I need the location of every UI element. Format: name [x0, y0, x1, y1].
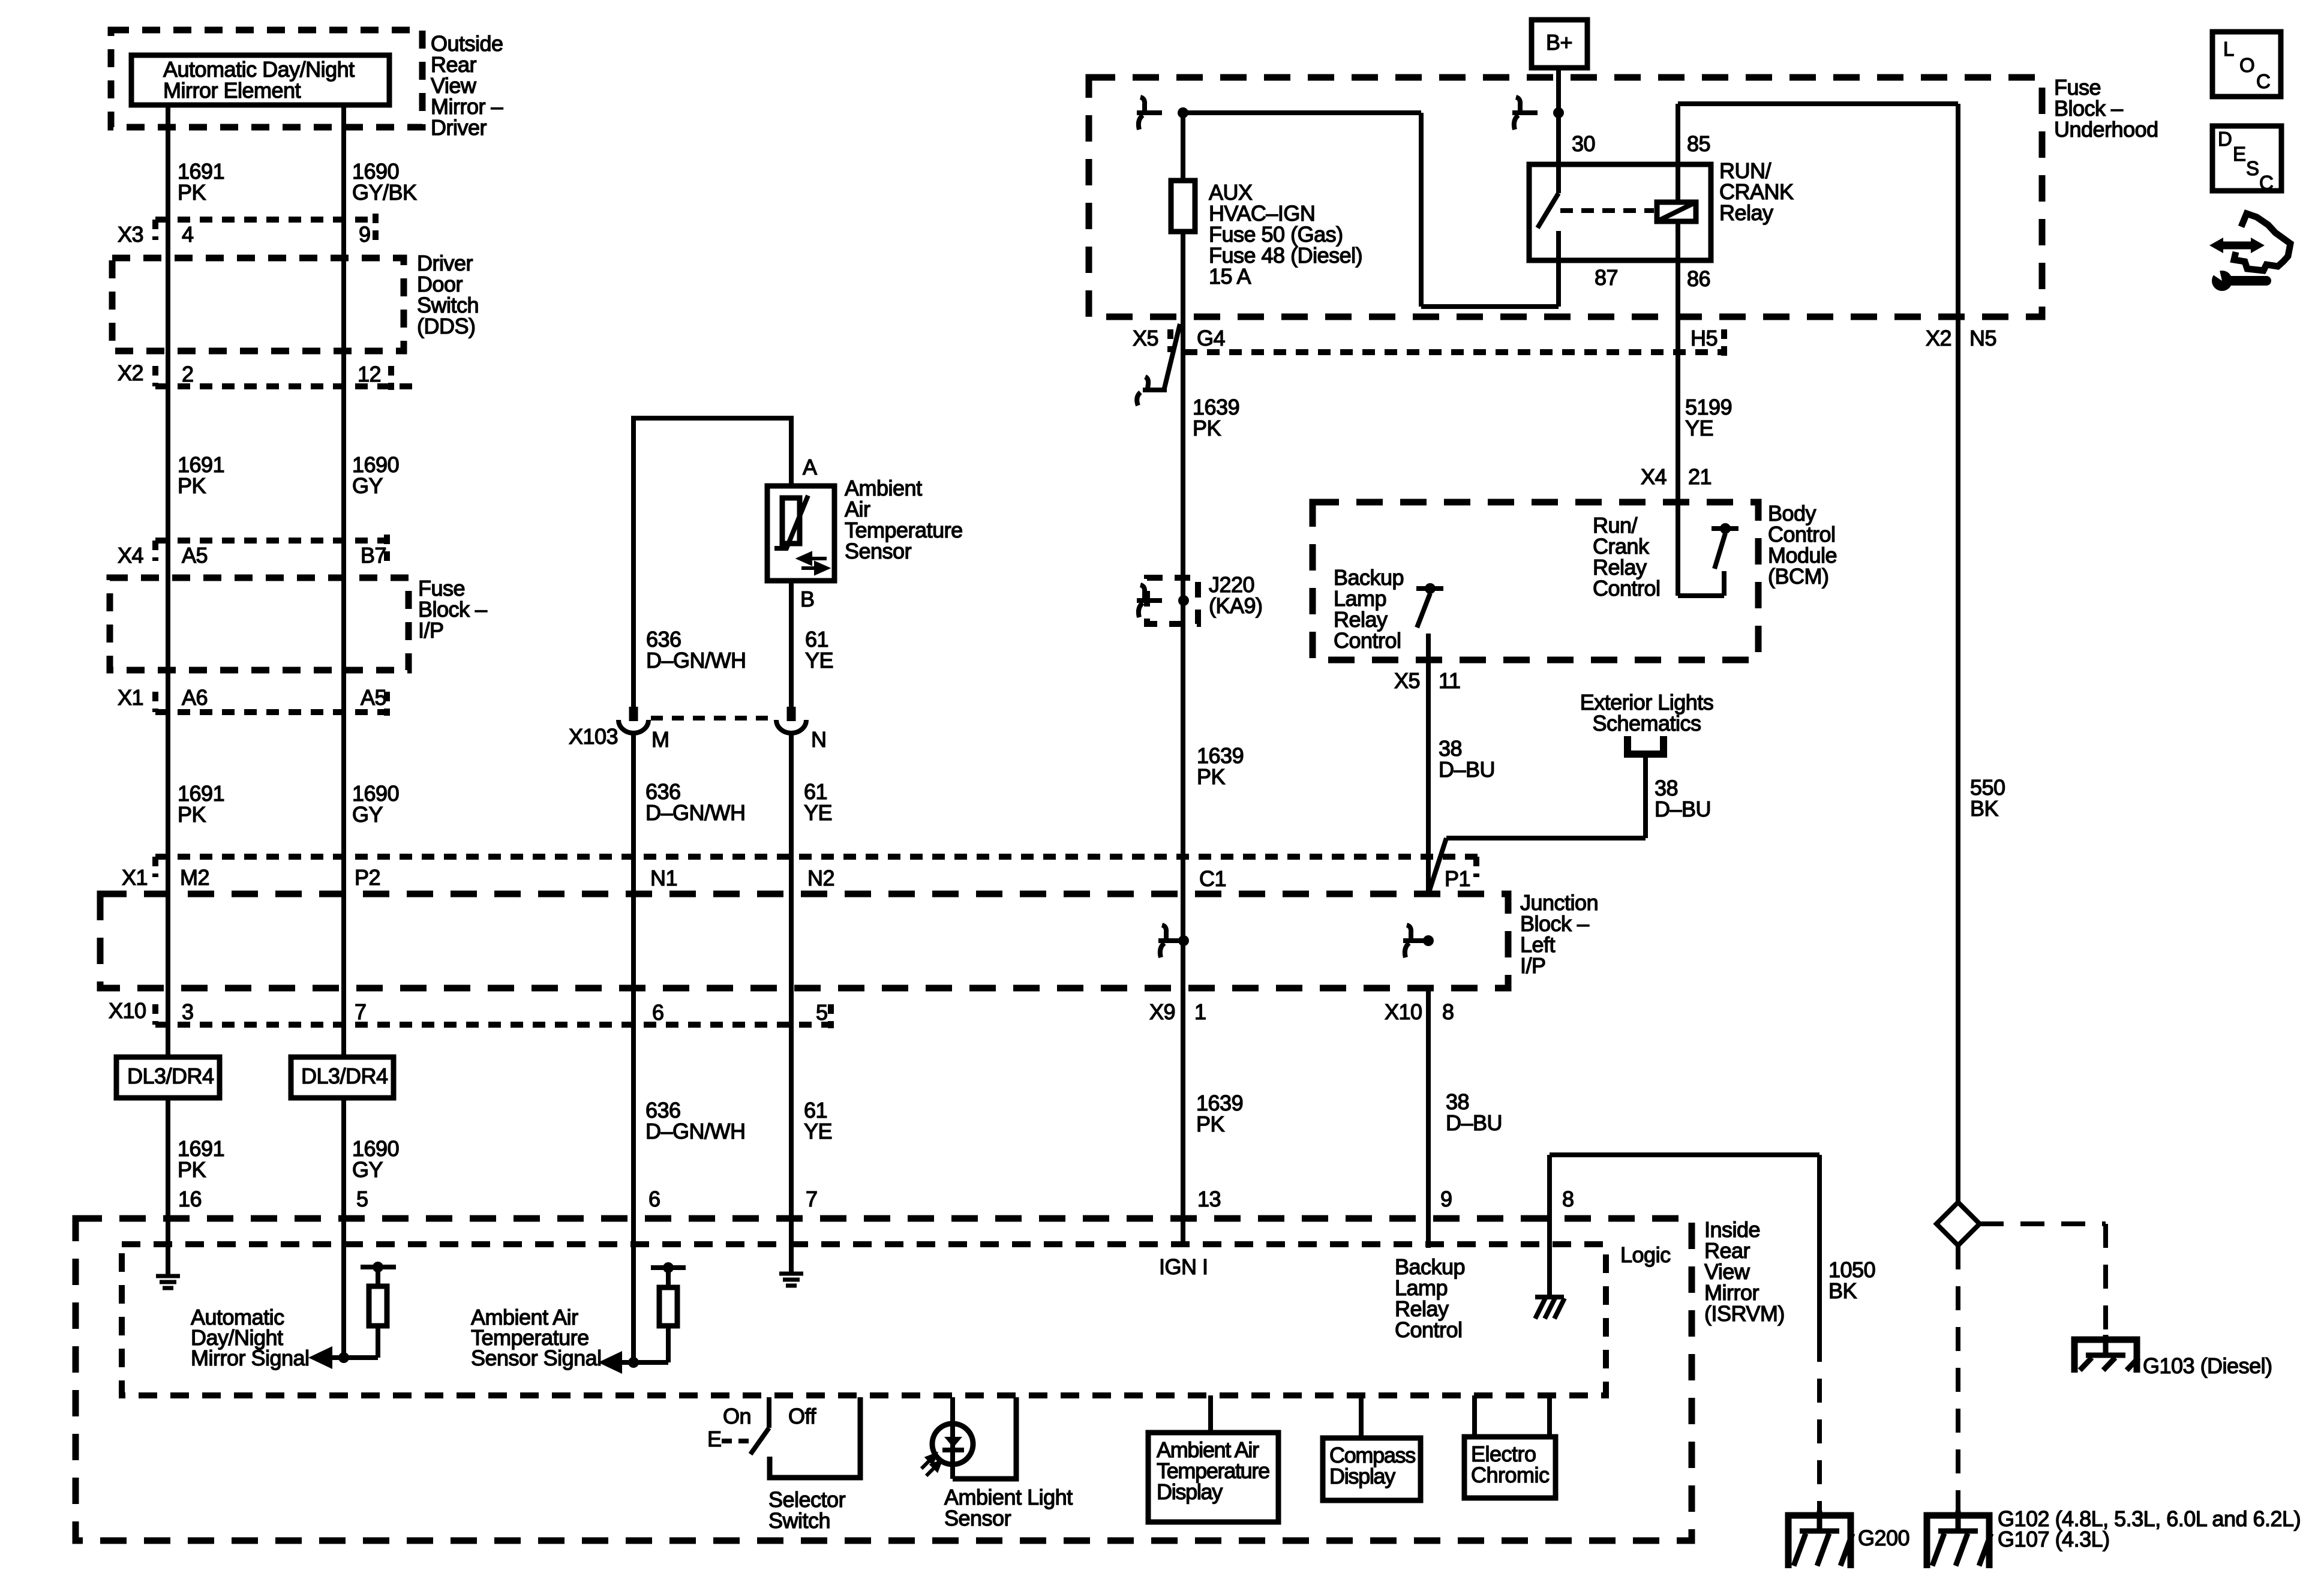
svg-text:G200: G200 [1858, 1526, 1909, 1550]
svg-text:C: C [2256, 70, 2270, 92]
wire 1691 PK left vertical [166, 105, 170, 1274]
svg-text:X1: X1 [122, 865, 148, 890]
compass display box [1359, 1395, 1364, 1438]
svg-text:H5: H5 [1691, 326, 1718, 350]
wire 1972 to fuse [1181, 113, 1185, 181]
wire 1690 GY right vertical [341, 105, 346, 1358]
wire 86 down [1676, 260, 1680, 596]
DL3/DR4 box left [116, 1057, 220, 1098]
svg-text:B+: B+ [1546, 30, 1572, 55]
svg-text:X10: X10 [1385, 999, 1422, 1024]
svg-text:5: 5 [816, 1000, 828, 1025]
svg-text:C: C [2259, 172, 2273, 194]
wire B+ down to bus [1556, 68, 1561, 164]
svg-text:4: 4 [182, 222, 194, 247]
bus junction terminal right [1512, 97, 1538, 130]
svg-text:7: 7 [355, 999, 367, 1024]
svg-text:A6: A6 [182, 685, 208, 710]
junction block terminal on 1639 wire [1158, 925, 1184, 957]
relay switch blade [1556, 164, 1561, 193]
svg-text:87: 87 [1595, 265, 1618, 290]
svg-text:B: B [800, 587, 815, 611]
svg-text:6: 6 [648, 1187, 660, 1211]
chassis ground logic [1535, 1297, 1565, 1319]
wire 8 loop to 1050 BK [1547, 1155, 1552, 1297]
svg-text:9: 9 [359, 222, 371, 247]
ground signal left [156, 1276, 180, 1288]
wire 85 up and over [1676, 164, 1680, 202]
svg-text:C1: C1 [1199, 866, 1226, 891]
svg-text:Schematics: Schematics [1592, 711, 1701, 736]
wire 1050 BK dashed [1817, 1338, 1822, 1512]
svg-text:86: 86 [1687, 266, 1710, 291]
svg-text:A5: A5 [361, 685, 386, 710]
svg-text:G103 (Diesel): G103 (Diesel) [2143, 1353, 2272, 1378]
wire 9 into logic [1426, 986, 1431, 1248]
run/crank driver switch [1712, 526, 1739, 531]
J220 KA9 splice box [1147, 578, 1198, 624]
junction block left I/P dashed box [100, 894, 1508, 988]
logic dashed box [122, 1244, 1606, 1395]
svg-text:On: On [723, 1404, 751, 1428]
temp sensor signal junction [622, 1360, 668, 1365]
backup lamp driver switch [1416, 586, 1443, 591]
svg-text:85: 85 [1687, 131, 1710, 156]
ambient air temperature display box [1208, 1395, 1213, 1433]
wire 38 D-BU from BCM [1426, 634, 1431, 894]
DESC reference box [2212, 126, 2281, 191]
svg-text:11: 11 [1439, 668, 1460, 693]
connector X2 row [155, 383, 413, 389]
LOC reference box [2212, 32, 2281, 97]
svg-text:Logic: Logic [1620, 1242, 1671, 1267]
wire 636 below X103 [631, 733, 636, 1362]
svg-text:5: 5 [356, 1187, 368, 1211]
svg-text:X5: X5 [1133, 326, 1158, 350]
B+ battery feed box [1532, 20, 1587, 68]
connector X103 cups [629, 707, 638, 721]
connector X1 row [155, 709, 391, 715]
svg-text:M2: M2 [180, 865, 209, 890]
ambient air temperature sensor box [767, 486, 834, 581]
automatic day/night mirror element box [131, 55, 389, 105]
svg-text:DL3/DR4: DL3/DR4 [127, 1064, 214, 1088]
svg-text:30: 30 [1572, 131, 1595, 156]
wire fuse down through G4 [1181, 232, 1185, 1244]
svg-text:Off: Off [788, 1404, 816, 1428]
svg-text:IGN I: IGN I [1159, 1254, 1208, 1279]
bus wire horizontal [1183, 110, 1421, 115]
splice diamond [1936, 1202, 1980, 1245]
ground G200 [1788, 1511, 1851, 1568]
svg-text:N5: N5 [1969, 326, 1996, 350]
mirror signal junction [332, 1355, 378, 1360]
ground G102/G107 [1927, 1511, 1989, 1568]
svg-text:N1: N1 [650, 866, 677, 890]
svg-text:13: 13 [1197, 1187, 1221, 1211]
svg-text:L: L [2223, 38, 2234, 60]
connector X10 row [155, 1022, 834, 1028]
svg-text:X5: X5 [1394, 668, 1420, 693]
sensor arrows [800, 554, 827, 573]
wire 38 jog to P1 [1446, 836, 1646, 840]
svg-text:E: E [707, 1427, 722, 1451]
svg-text:X3: X3 [118, 222, 143, 247]
fuse block underhood dashed box [1089, 77, 2042, 317]
svg-text:A5: A5 [182, 543, 208, 568]
fuse block I/P dashed box [110, 578, 409, 670]
svg-text:16: 16 [178, 1187, 202, 1211]
run/crank relay box [1529, 164, 1711, 260]
electro chromic box [1472, 1395, 1477, 1437]
dashed wire to G103 [1980, 1221, 2106, 1226]
svg-text:7: 7 [806, 1187, 818, 1211]
svg-text:A: A [803, 455, 817, 479]
thermistor symbol [782, 498, 800, 544]
driver door switch dashed box [112, 258, 404, 351]
svg-text:8: 8 [1442, 999, 1454, 1024]
svg-text:M: M [651, 727, 669, 752]
light sensor arrows [921, 1455, 940, 1476]
svg-text:8: 8 [1562, 1187, 1574, 1211]
fuse AUX HVAC-IGN symbol [1171, 181, 1195, 232]
svg-text:1: 1 [1194, 999, 1206, 1024]
svg-text:X4: X4 [118, 543, 143, 568]
DL3/DR4 box right [291, 1057, 394, 1098]
bus junction terminal left [1137, 97, 1162, 130]
svg-text:X10: X10 [109, 998, 146, 1023]
svg-text:P2: P2 [355, 865, 380, 890]
svg-text:N: N [811, 727, 827, 752]
ground G103 [2074, 1335, 2137, 1373]
svg-text:6: 6 [652, 1000, 664, 1025]
temp sensor signal resistor [651, 1265, 686, 1270]
wire 636 to sensor top loop [631, 418, 636, 708]
svg-text:X2: X2 [118, 361, 143, 385]
svg-text:P1: P1 [1445, 866, 1470, 891]
svg-text:X1: X1 [118, 685, 143, 710]
ambient light sensor [950, 1397, 955, 1479]
svg-text:21: 21 [1688, 464, 1712, 489]
svg-text:S: S [2246, 157, 2259, 179]
connector X1 strip row [155, 854, 1478, 860]
body control module dashed box [1313, 502, 1758, 660]
svg-text:D: D [2218, 128, 2232, 150]
svg-text:G4: G4 [1197, 326, 1225, 350]
G4 terminal pigtail [1137, 324, 1180, 406]
svg-text:3: 3 [182, 999, 194, 1024]
svg-text:X9: X9 [1149, 999, 1175, 1024]
mirror signal resistor [361, 1265, 396, 1269]
junction block terminal on 38 wire [1403, 925, 1428, 957]
svg-text:2: 2 [182, 362, 194, 386]
wire 61 below X103 [789, 733, 794, 1272]
outside rear view mirror - driver dashed box [111, 30, 422, 127]
relay actuation dashed line [1560, 208, 1654, 213]
svg-text:N2: N2 [807, 866, 834, 890]
svg-text:X4: X4 [1641, 464, 1667, 489]
selector switch [767, 1397, 771, 1428]
relay coil box [1657, 202, 1696, 221]
svg-text:12: 12 [358, 362, 381, 386]
ground signal wire 61 [779, 1274, 803, 1286]
wire to relay 87 loop [1419, 113, 1424, 307]
svg-text:E: E [2233, 143, 2246, 165]
svg-text:X103: X103 [569, 724, 618, 749]
svg-text:DriverDoorSwitch(DDS): DriverDoorSwitch(DDS) [417, 251, 479, 338]
exterior lights off-page connector [1628, 736, 1664, 754]
wire 61 YE below sensor [789, 581, 794, 708]
svg-text:9: 9 [1440, 1187, 1452, 1211]
inside rear view mirror dashed box [76, 1218, 1692, 1541]
svg-text:B7: B7 [361, 543, 386, 568]
connector X4 row [155, 538, 390, 544]
connector X3 row [155, 217, 379, 223]
svg-text:X2: X2 [1926, 326, 1951, 350]
svg-text:O: O [2239, 54, 2254, 76]
service icon [2208, 214, 2290, 291]
svg-text:DL3/DR4: DL3/DR4 [301, 1064, 388, 1088]
dashed wire to G102 [1956, 1245, 1960, 1512]
connector G4 H5 dotted row [1185, 349, 1727, 355]
